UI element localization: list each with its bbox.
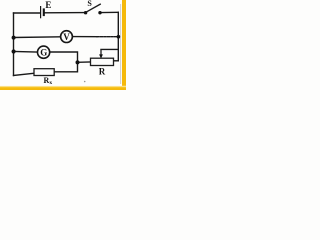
node: left junction to voltmeter [12, 36, 16, 40]
wire Rx to node A [54, 63, 77, 72]
wire rheostat slider tap [101, 48, 118, 50]
wire rheostat right terminal [114, 60, 119, 62]
scan speck [84, 81, 86, 83]
wire bottom row to Rx [14, 73, 35, 75]
wire right vertical [117, 12, 119, 61]
node A junction G/Rx/rheostat [76, 60, 80, 64]
battery E plates [41, 6, 44, 18]
wire switch to top-right corner [101, 11, 118, 13]
yellow page-edge band bottom [0, 86, 126, 90]
wire battery to switch [45, 12, 85, 14]
background [0, 0, 126, 90]
wire voltmeter row right [73, 36, 97, 38]
resistor Rx box [34, 69, 54, 76]
wire galvanometer to node A [50, 52, 77, 63]
faint scan line [119, 4, 122, 84]
rheostat R box [91, 58, 114, 65]
svg-text:G: G [40, 48, 47, 58]
yellow page-edge band right [122, 0, 126, 90]
wire left vertical [13, 13, 15, 76]
svg-text:R: R [99, 67, 106, 77]
node: left junction to galvanometer [12, 49, 16, 53]
wire top-left to battery [14, 12, 41, 14]
wire voltmeter row right dotted [97, 36, 118, 38]
node: right vertical at voltmeter row [117, 35, 121, 39]
rheostat slider arrow [99, 50, 103, 59]
wire voltmeter row left [14, 36, 61, 39]
galvanometer G [38, 46, 50, 58]
svg-text:S: S [87, 0, 92, 8]
wire galvanometer row left [14, 51, 38, 54]
switch S [84, 4, 102, 15]
svg-text:E: E [45, 0, 51, 10]
svg-text:V: V [63, 32, 70, 42]
voltmeter V [61, 31, 73, 43]
wire node A to rheostat [78, 61, 91, 63]
